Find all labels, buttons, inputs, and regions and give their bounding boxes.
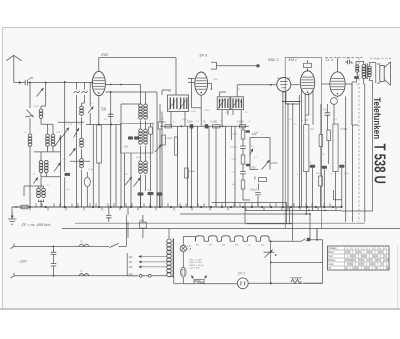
bus y202	[212, 203, 287, 224]
svg-text:EK2: EK2	[102, 53, 109, 57]
node c299	[299, 101, 301, 103]
wire x128 drop	[127, 207, 129, 238]
svg-text:~ 220V: ~ 220V	[17, 260, 28, 264]
wire det row	[160, 125, 249, 127]
wire EBC3 out	[283, 85, 300, 207]
node ant-b	[45, 82, 47, 84]
capacitor C-el6	[339, 165, 344, 168]
wire L2 tail	[41, 119, 53, 134]
wire col x157	[156, 104, 158, 207]
coil L17	[144, 161, 148, 165]
resistor R2	[149, 127, 153, 134]
svg-text:2%: 2%	[104, 119, 107, 121]
boundary dashes top right	[370, 57, 391, 59]
switch contact S1	[25, 110, 33, 118]
wire EF9 gridcap	[211, 62, 257, 69]
trimmer C-g	[155, 145, 162, 153]
node det-a	[180, 125, 182, 127]
svg-text:Telefunken: Telefunken	[372, 97, 383, 139]
capacitor C-5000	[348, 60, 350, 64]
section divider right	[321, 57, 323, 228]
capacitor antenna coupling	[25, 80, 27, 86]
socket circles	[139, 274, 142, 277]
bus junctions	[29, 206, 31, 208]
svg-text:30µF: 30µF	[344, 173, 350, 175]
wire spk down2	[342, 81, 373, 212]
mains plug	[11, 244, 15, 279]
resistor R5	[213, 125, 221, 128]
svg-text:50: 50	[101, 107, 106, 112]
svg-text:15: 15	[384, 248, 386, 250]
wire col x121	[120, 104, 122, 207]
resistor R16 tall	[174, 137, 177, 155]
wire col x131	[130, 153, 132, 207]
switch S4	[250, 149, 254, 156]
wire RF col x45	[41, 83, 46, 110]
svg-text:5µµF: 5µµF	[254, 132, 260, 134]
svg-text:EF 9: EF 9	[200, 54, 208, 58]
wire col x116	[115, 125, 117, 208]
component 5000 box	[140, 222, 147, 228]
svg-text:0,5MΩ: 0,5MΩ	[271, 163, 278, 165]
svg-text:Kurz: Kurz	[328, 255, 334, 258]
node ant-c	[64, 81, 66, 83]
coil L1	[28, 134, 32, 138]
wire R14 tail	[335, 172, 337, 208]
capacitor C-el3	[157, 192, 163, 195]
bus y228	[62, 228, 400, 230]
svg-text:100µµF: 100µµF	[230, 147, 238, 149]
svg-text:1MΩ: 1MΩ	[161, 122, 166, 124]
dial lamp	[180, 245, 186, 251]
resistor R13	[319, 176, 323, 186]
wire col x84	[82, 83, 85, 107]
lower cluster box	[259, 178, 267, 182]
svg-text:110: 110	[129, 256, 133, 259]
coil L12	[139, 104, 143, 108]
svg-text:11: 11	[373, 248, 375, 250]
NTC resistor	[194, 280, 204, 284]
switch S3	[70, 148, 76, 156]
svg-text:3: 3	[350, 248, 351, 250]
wire spk down	[364, 84, 366, 222]
wire L16 tail	[141, 175, 146, 207]
wire Tr2 tails	[220, 85, 242, 127]
wire x60 col	[60, 135, 62, 207]
wire col x288	[288, 104, 293, 210]
wire Tr1 tails	[162, 90, 185, 207]
svg-text:5000: 5000	[346, 58, 352, 60]
node ant-a	[29, 82, 31, 84]
capacitor C-m3	[51, 264, 57, 266]
capacitor C-el1	[138, 192, 144, 195]
resistor R8	[241, 155, 245, 164]
shield box osc	[121, 124, 154, 154]
svg-text:0,1MΩ: 0,1MΩ	[166, 138, 173, 140]
capacitor C-fb	[354, 76, 359, 79]
heater chain	[183, 237, 301, 242]
coil L11	[80, 159, 84, 163]
boundary bottom	[75, 222, 365, 224]
section top EM1	[285, 56, 321, 58]
svg-text:Schalter: Schalter	[328, 247, 337, 250]
capacitor C-pad1	[128, 136, 133, 139]
ground symbol	[8, 219, 16, 224]
tube EM1	[300, 71, 314, 95]
svg-text:5000: 5000	[188, 122, 194, 124]
wire outtr top	[356, 62, 376, 67]
svg-text:0,2MΩ: 0,2MΩ	[189, 171, 196, 173]
capacitor C-af1	[240, 146, 246, 148]
tap 150	[139, 266, 167, 268]
IF transformer Tr1	[168, 95, 189, 112]
capacitor C-el4	[310, 165, 315, 168]
trimmer C-i	[134, 178, 141, 187]
svg-text:+: +	[148, 188, 150, 192]
wire EF9 plate	[201, 83, 211, 126]
node osc1	[110, 91, 112, 93]
wire CL4 left	[322, 84, 353, 125]
wire out col x299	[282, 95, 300, 207]
coil L4	[51, 134, 55, 138]
fuse bottom	[79, 274, 89, 276]
fuse top	[79, 244, 89, 246]
wire out col x345	[345, 97, 347, 222]
bus left connector	[21, 205, 28, 209]
trimmer C-d	[62, 128, 69, 138]
wire phono right	[248, 282, 322, 284]
svg-text:0,3A: 0,3A	[187, 247, 192, 250]
coil L-fb	[356, 65, 359, 68]
speaker	[380, 66, 384, 82]
svg-text:Mittel-L.: Mittel-L.	[328, 259, 337, 262]
resistor R3	[158, 122, 162, 129]
wire col x76	[76, 83, 78, 208]
capacitor C-det2	[205, 124, 209, 128]
wire antenna line	[29, 82, 92, 84]
switch wave b	[82, 91, 88, 94]
resistor R15	[162, 135, 166, 145]
resistor R12	[319, 135, 323, 147]
resistor R6	[240, 125, 246, 128]
pot volume arrow	[262, 160, 270, 170]
wire mid connector	[41, 152, 61, 188]
svg-text:5000: 5000	[139, 220, 145, 222]
bus y210	[245, 209, 341, 211]
transformer primary	[167, 239, 171, 243]
antenna	[6, 55, 21, 82]
svg-text:CV 1: CV 1	[238, 272, 245, 276]
wire L9 tail	[58, 117, 84, 138]
svg-text:30µF: 30µF	[316, 173, 322, 175]
wire antenna feed	[14, 82, 22, 84]
svg-text:127: 127	[129, 261, 134, 264]
resistor R10 tall	[304, 125, 309, 172]
coil L5	[39, 160, 43, 164]
trimmer C-h	[125, 177, 132, 185]
output transformer	[362, 65, 365, 68]
svg-text:EBC 3: EBC 3	[268, 58, 278, 62]
wire R12 tail	[320, 104, 322, 176]
IF transformer Tr2a	[217, 97, 230, 110]
wire det verticals	[178, 126, 236, 207]
svg-text:Band: Band	[328, 252, 334, 254]
wire EBC3 hlines	[282, 102, 300, 105]
resistor R11	[327, 130, 331, 141]
coil L9	[80, 106, 84, 110]
switch position table	[328, 246, 390, 270]
wire R11 tail	[328, 141, 330, 165]
wire L3L4 tails	[34, 146, 61, 152]
trimmer C-b	[55, 137, 62, 147]
svg-text:0,02µF: 0,02µF	[250, 190, 258, 192]
switch S2	[34, 178, 39, 184]
svg-text:0,1µF: 0,1µF	[88, 169, 94, 171]
heater switch	[301, 239, 307, 242]
svg-text:0,1MΩ: 0,1MΩ	[237, 122, 244, 124]
trimmer C-e	[74, 128, 80, 138]
coil L6	[45, 160, 49, 164]
capacitor C14	[325, 113, 331, 115]
resistor R1	[97, 125, 102, 163]
wire out col x352	[353, 125, 358, 222]
resistor R9	[241, 180, 245, 189]
svg-text:7: 7	[361, 248, 362, 250]
coil L14	[139, 129, 143, 133]
tap bracket	[127, 253, 138, 276]
wire heater loop	[305, 282, 323, 284]
capacitor C-m1	[106, 215, 111, 217]
capacitor C-det1	[190, 124, 194, 128]
svg-text:0,1MΩ: 0,1MΩ	[231, 134, 238, 136]
tube EF9	[195, 72, 208, 95]
wire L11 tail	[81, 170, 83, 207]
wire EK2 plate	[99, 58, 176, 95]
svg-text:0,1µF: 0,1µF	[64, 189, 70, 191]
resistor R17	[185, 168, 189, 178]
trimmer C-c	[54, 163, 61, 172]
svg-text:ZF = ca. 468 kHz: ZF = ca. 468 kHz	[21, 223, 51, 227]
svg-text:5µµF: 5µµF	[252, 134, 258, 136]
coil L8	[42, 188, 46, 192]
svg-text:13: 13	[378, 248, 380, 250]
capacitor C-af2	[240, 172, 246, 174]
wire fb	[352, 73, 357, 126]
svg-text:Rs: Rs	[376, 59, 379, 61]
section top CL4	[325, 56, 364, 58]
phono line	[183, 283, 237, 285]
capacitor C-b1	[245, 130, 250, 133]
node EK2 grid	[91, 82, 93, 84]
wire L7 tails	[24, 186, 44, 207]
wire L14 tail	[141, 146, 146, 161]
svg-text:220: 220	[129, 273, 134, 276]
capacitor C-el5	[322, 166, 327, 169]
svg-text:100: 100	[124, 146, 129, 149]
capacitor EM1 top	[304, 63, 312, 67]
coil L16	[139, 161, 143, 165]
svg-text:CL 4: CL 4	[326, 58, 334, 62]
tube EBC3	[277, 78, 291, 92]
svg-text:5: 5	[356, 248, 357, 250]
svg-text:T 538 U: T 538 U	[371, 144, 388, 184]
IF transformer Tr2b	[231, 97, 244, 110]
hum pot	[264, 251, 275, 253]
wire switch link	[125, 215, 127, 246]
node Tr2b top	[240, 101, 242, 103]
urdox	[181, 267, 186, 277]
svg-text:0,7MΩ: 0,7MΩ	[341, 129, 348, 131]
svg-text:0,1µF: 0,1µF	[232, 159, 238, 161]
wire R13 tail	[320, 186, 322, 207]
coil L15	[144, 129, 148, 133]
tube EK2	[92, 71, 105, 95]
trimmer C-f	[88, 107, 94, 114]
resistor R4	[165, 125, 172, 128]
wire col x64	[64, 82, 66, 207]
bus y214	[180, 214, 310, 241]
wire R1 tail	[98, 163, 100, 207]
svg-text:M: M	[33, 174, 35, 176]
wire el tails	[141, 195, 160, 207]
wire AF col	[243, 126, 250, 200]
switch wave a	[74, 91, 80, 94]
node Tr2a top	[219, 100, 221, 102]
tap 110	[139, 256, 167, 258]
svg-text:0,1MΩ: 0,1MΩ	[211, 122, 218, 124]
grid cap blob	[256, 64, 259, 67]
mains line bottom	[14, 275, 138, 277]
wire col x110	[110, 92, 112, 207]
wire col x150	[150, 123, 152, 191]
bus y223	[246, 203, 292, 224]
switch mains	[109, 243, 126, 247]
resistor R7	[241, 130, 245, 139]
section divider left	[284, 57, 286, 228]
svg-text:EM: EM	[235, 244, 238, 246]
wire L10 tail	[70, 149, 90, 161]
resistor wirewound	[291, 279, 301, 283]
phono jack CV1	[237, 278, 248, 289]
tap 127	[139, 261, 167, 263]
tube CL4	[330, 72, 345, 96]
svg-text:150: 150	[129, 266, 134, 269]
wire EBC3 grid	[237, 84, 277, 86]
svg-text:10µF: 10µF	[232, 184, 238, 186]
resistor R14 tall	[333, 124, 338, 172]
svg-text:EM 1: EM 1	[289, 58, 297, 62]
svg-text:9: 9	[367, 248, 368, 250]
coil L10	[80, 138, 84, 142]
capacitor C-x64	[65, 173, 71, 176]
svg-text:Lang: Lang	[328, 264, 334, 266]
mains line top	[14, 245, 109, 247]
svg-text:CL4 = 33V: CL4 = 33V	[190, 267, 201, 269]
coil L2	[39, 109, 43, 113]
node mains	[53, 246, 55, 248]
wire RF col x30	[29, 83, 31, 208]
switch wave band	[29, 78, 33, 80]
wire L12 frame	[121, 85, 146, 130]
capacitor C-osc1	[108, 114, 114, 116]
ground bus	[12, 206, 342, 208]
wire col x90	[89, 83, 91, 125]
pot loop	[250, 138, 270, 170]
wire col x93	[92, 125, 94, 208]
svg-text:1: 1	[345, 248, 346, 250]
wire col x160	[159, 104, 161, 207]
wire EM1 tails	[302, 89, 313, 207]
node det-b	[222, 125, 224, 127]
wire row y124	[86, 124, 121, 126]
node heater big	[307, 238, 310, 241]
wire y262	[271, 261, 323, 263]
wire heater right	[310, 229, 322, 284]
capacitor C-el2	[148, 192, 154, 195]
coil L13	[144, 104, 148, 108]
capacitor C-oval	[84, 177, 90, 186]
trimmer C-a	[37, 88, 44, 97]
coil L3	[46, 134, 50, 138]
wire EK2 g-out	[105, 85, 157, 105]
wire R10 tail	[305, 172, 307, 215]
capacitor C-b2	[246, 164, 251, 167]
wire trafo bottom	[169, 277, 179, 284]
coil L7	[37, 188, 41, 192]
wire outtr bottom	[364, 77, 373, 84]
wire col x124	[124, 153, 126, 207]
capacitor C-pad2	[134, 136, 139, 139]
svg-text:TA: TA	[328, 267, 331, 270]
screen connector CL4	[331, 98, 338, 105]
capacitor C-m2	[51, 252, 57, 254]
